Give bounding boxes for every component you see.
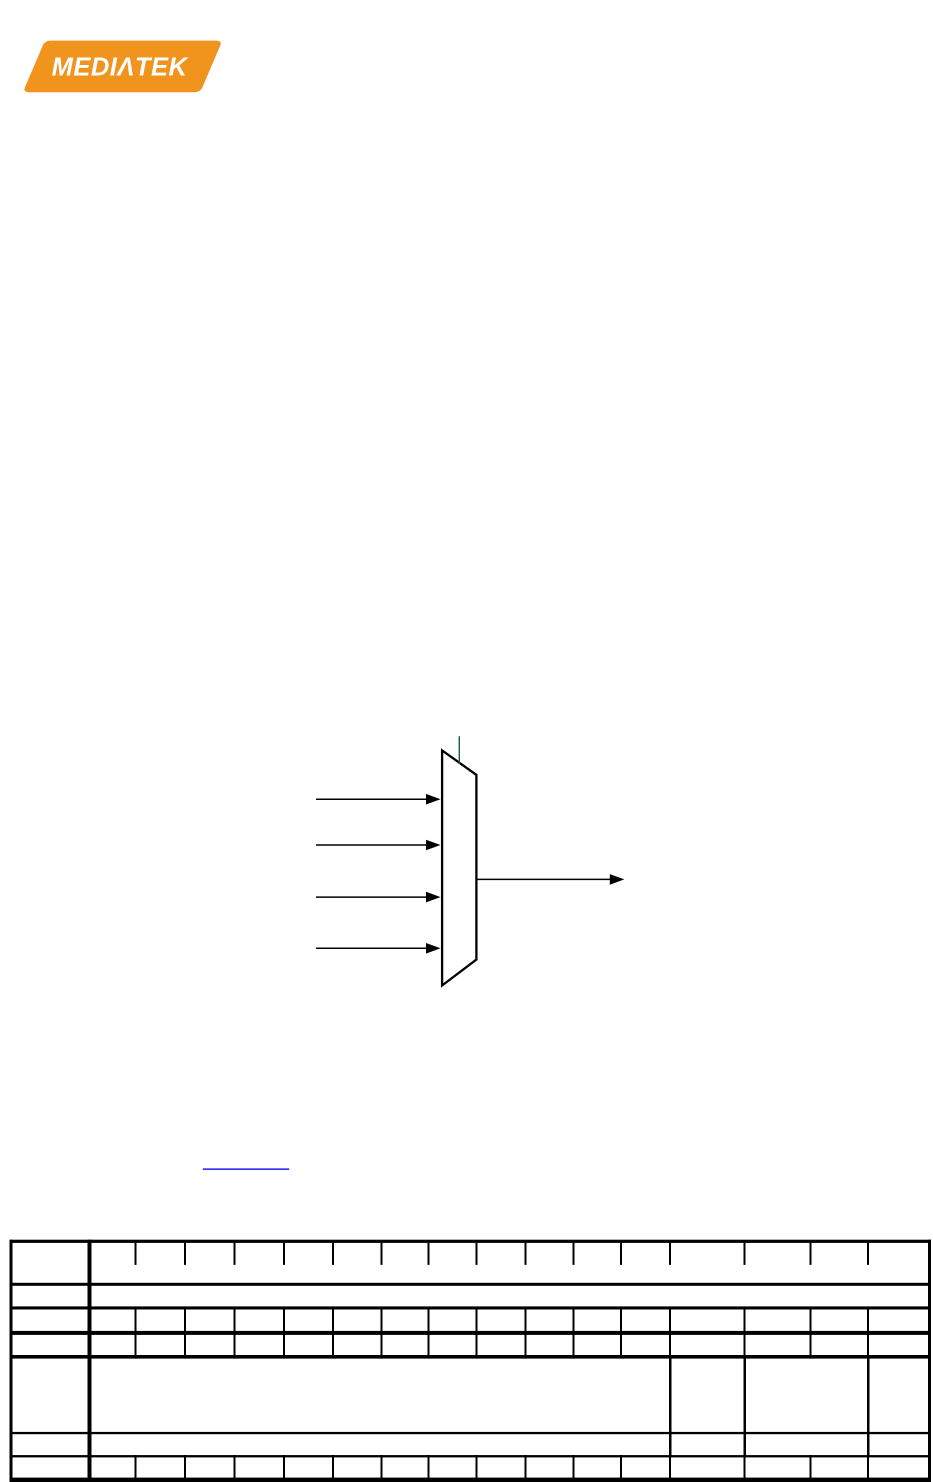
register table bbox=[10, 1240, 932, 1482]
table h-line thick row5 top bbox=[10, 1355, 932, 1359]
input wire 2 bbox=[316, 844, 428, 846]
row5 cell separators bbox=[669, 1355, 672, 1434]
input wire 3 bbox=[316, 896, 428, 898]
output wire bbox=[477, 878, 612, 880]
arrowhead input 3 bbox=[426, 892, 441, 903]
svg-text:MEDIΛTEK: MEDIΛTEK bbox=[52, 53, 189, 81]
arrowhead output bbox=[610, 874, 625, 885]
arrowhead input 4 bbox=[426, 943, 441, 954]
row6 cell separators bbox=[669, 1432, 672, 1457]
MediaTek logo bbox=[24, 41, 220, 93]
input wire 4 bbox=[316, 947, 428, 949]
input wire 1 bbox=[316, 798, 428, 800]
table outer border bottom bbox=[10, 1478, 932, 1482]
table h-line row7 top bbox=[10, 1455, 932, 1457]
hyperlink underline bbox=[203, 1168, 289, 1170]
table outer border top bbox=[10, 1240, 932, 1243]
table h-line row6 top bbox=[10, 1432, 932, 1434]
row3 cell separators bbox=[135, 1307, 137, 1336]
table h-line row3 top bbox=[10, 1306, 932, 1309]
table outer border right bbox=[928, 1240, 931, 1482]
bit ticks row1 bbox=[135, 1243, 137, 1265]
table h-line row2 top bbox=[10, 1283, 932, 1286]
table outer border left bbox=[10, 1240, 13, 1482]
table h-line thick row4 top bbox=[10, 1331, 932, 1335]
table vertical divider bbox=[88, 1240, 92, 1482]
row7 cell separators bbox=[135, 1455, 137, 1482]
arrowhead input 1 bbox=[426, 794, 441, 805]
row4 cell separators bbox=[135, 1331, 137, 1359]
arrowhead input 2 bbox=[426, 840, 441, 851]
select wire bbox=[458, 736, 460, 764]
mux U1 bbox=[442, 750, 476, 985]
